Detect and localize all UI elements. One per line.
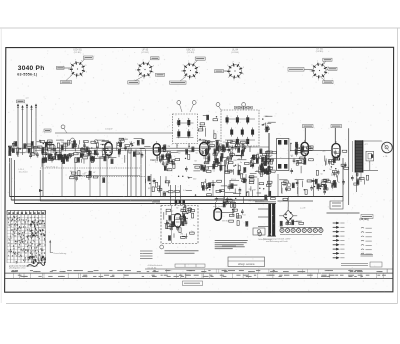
svg-text:5n: 5n — [50, 145, 52, 147]
svg-text:5n: 5n — [60, 140, 62, 142]
svg-text:3040 Ph: 3040 Ph — [18, 65, 45, 72]
svg-text:alle Angaben ohne: alle Angaben ohne — [9, 267, 26, 270]
svg-text:7: 7 — [143, 60, 144, 62]
svg-text:8: 8 — [239, 63, 240, 65]
svg-text:9: 9 — [153, 66, 154, 68]
svg-text:1k: 1k — [18, 152, 20, 154]
svg-text:5n: 5n — [321, 174, 323, 176]
svg-text:(V5 B5): (V5 B5) — [316, 51, 324, 53]
svg-text:1: 1 — [328, 73, 329, 75]
svg-text:2: 2 — [82, 76, 83, 78]
svg-text:5n: 5n — [193, 225, 195, 227]
svg-text:1: 1 — [199, 73, 200, 75]
svg-text:5: 5 — [135, 70, 136, 72]
svg-text:UBC 81: UBC 81 — [186, 49, 195, 52]
svg-text:1k: 1k — [66, 148, 68, 150]
svg-text:5: 5 — [181, 71, 182, 73]
svg-text:UF 85: UF 85 — [142, 49, 149, 52]
svg-text:9: 9 — [243, 67, 244, 69]
svg-text:1: 1 — [86, 71, 87, 73]
svg-text:1: 1 — [243, 73, 244, 75]
svg-text:8: 8 — [149, 61, 150, 63]
svg-text:2M: 2M — [232, 211, 235, 213]
svg-text:Lithogr. versions: Lithogr. versions — [238, 263, 256, 266]
svg-text:10u 20-10: 10u 20-10 — [19, 171, 29, 173]
svg-text:5n: 5n — [229, 198, 231, 200]
svg-text:3: 3 — [143, 78, 144, 80]
svg-text:mit UL 84: mit UL 84 — [148, 266, 158, 269]
svg-text:1k: 1k — [298, 222, 300, 224]
svg-text:2M: 2M — [253, 190, 256, 192]
svg-text:1k: 1k — [342, 184, 344, 186]
svg-text:5n: 5n — [60, 145, 62, 147]
svg-text:5n: 5n — [196, 153, 198, 155]
svg-text:UY 85: UY 85 — [316, 48, 323, 51]
svg-text:(V2 B2): (V2 B2) — [141, 52, 149, 54]
svg-text:Netzspannungs: Netzspannungs — [258, 238, 272, 241]
svg-text:4: 4 — [138, 75, 139, 77]
svg-text:1k: 1k — [176, 145, 178, 147]
svg-text:5n: 5n — [329, 169, 331, 171]
svg-text:7: 7 — [188, 61, 189, 63]
svg-text:6: 6 — [183, 65, 184, 67]
svg-text:5: 5 — [68, 69, 69, 71]
svg-text:2M: 2M — [72, 153, 75, 155]
svg-text:6: 6 — [227, 65, 228, 67]
svg-text:477: 477 — [365, 144, 368, 146]
svg-text:2M: 2M — [229, 159, 232, 161]
svg-text:7: 7 — [75, 60, 76, 62]
svg-text:u.a.W.: u.a.W. — [300, 208, 306, 210]
svg-text:2: 2 — [239, 78, 240, 80]
svg-text:5n: 5n — [240, 162, 242, 164]
svg-text:3: 3 — [76, 78, 77, 80]
svg-text:ant: ant — [26, 97, 29, 100]
svg-text:1k: 1k — [205, 155, 207, 157]
svg-text:6: 6 — [137, 64, 138, 66]
svg-text:2: 2 — [195, 78, 196, 80]
svg-text:5: 5 — [225, 71, 226, 73]
svg-text:1: 1 — [153, 72, 154, 74]
svg-text:8: 8 — [81, 61, 82, 63]
svg-text:5n: 5n — [213, 171, 215, 173]
svg-text:(V1 B1): (V1 B1) — [74, 52, 82, 54]
svg-text:5: 5 — [310, 71, 311, 73]
svg-text:mit Tastatur emst.: mit Tastatur emst. — [249, 200, 265, 203]
svg-text:3: 3 — [233, 80, 234, 82]
svg-text:feat. Pt tol. m: feat. Pt tol. m — [46, 166, 58, 169]
svg-text:(V4 B4): (V4 B4) — [231, 52, 239, 54]
svg-text:Umschaltung: Umschaltung — [54, 252, 68, 255]
svg-text:1k: 1k — [75, 152, 77, 154]
svg-text:(V3 B3): (V3 B3) — [187, 52, 195, 54]
svg-text:1.005 W: 1.005 W — [105, 129, 113, 131]
svg-text:9: 9 — [199, 67, 200, 69]
svg-text:7: 7 — [317, 61, 318, 63]
svg-text:3: 3 — [189, 79, 190, 81]
svg-text:6: 6 — [70, 63, 71, 65]
svg-text:3: 3 — [318, 79, 319, 81]
svg-text:4: 4 — [312, 76, 313, 78]
svg-text:EM 80: EM 80 — [222, 221, 229, 223]
svg-text:4: 4 — [228, 77, 229, 79]
svg-text:1k: 1k — [338, 182, 340, 184]
svg-text:2M: 2M — [158, 186, 161, 188]
svg-text:1k: 1k — [271, 155, 273, 157]
svg-text:63-5556-1): 63-5556-1) — [17, 72, 38, 76]
svg-text:6: 6 — [312, 65, 313, 67]
svg-text:UCH 81: UCH 81 — [73, 49, 82, 52]
svg-text:2: 2 — [150, 77, 151, 79]
svg-text:9: 9 — [85, 65, 86, 67]
svg-text:UL 84: UL 84 — [232, 49, 239, 52]
svg-text:2M: 2M — [167, 146, 170, 148]
